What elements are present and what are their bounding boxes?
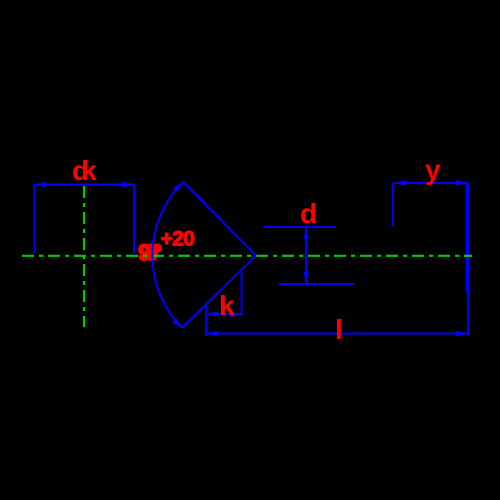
- dimension k extension right: [241, 272, 243, 316]
- cone bottom edge: [182, 256, 256, 329]
- dimension y line: [393, 182, 468, 184]
- k arrow left: [207, 311, 219, 317]
- centerline overlay dash at right vertical: [464, 255, 472, 257]
- arc arrow top: [173, 182, 183, 192]
- dimension l line: [207, 333, 469, 335]
- svg-text:d: d: [300, 198, 317, 229]
- d bottom line: [279, 283, 354, 285]
- right vertical extension (y and l): [466, 183, 469, 293]
- svg-text:k: k: [219, 290, 235, 321]
- d arrow up: [303, 228, 308, 240]
- dimension d vertical line: [305, 227, 307, 284]
- l arrow right: [456, 331, 468, 337]
- y arrow left: [393, 180, 405, 186]
- centerline horizontal axis: [22, 255, 472, 257]
- svg-text:y: y: [425, 154, 441, 185]
- arc arrow bottom: [172, 318, 182, 328]
- angle dimension arc: [152, 182, 183, 328]
- y arrow right: [456, 180, 468, 186]
- dk arrow right: [122, 182, 134, 188]
- cone top edge: [183, 182, 256, 256]
- dimension l extension left: [205, 304, 207, 336]
- dk extension line left: [34, 185, 36, 254]
- dimension dk line: [35, 184, 135, 186]
- d top line: [264, 226, 335, 228]
- dimension y extension left: [392, 183, 394, 226]
- d arrow down: [303, 272, 308, 284]
- k arrow right: [230, 311, 242, 317]
- dk arrow left: [35, 182, 47, 188]
- svg-text:+20: +20: [161, 228, 195, 251]
- dimension k line: [207, 313, 242, 315]
- centerline vertical (left view): [83, 186, 85, 327]
- svg-text:l: l: [335, 314, 343, 345]
- dk extension line right: [133, 185, 135, 254]
- l arrow left: [207, 331, 219, 337]
